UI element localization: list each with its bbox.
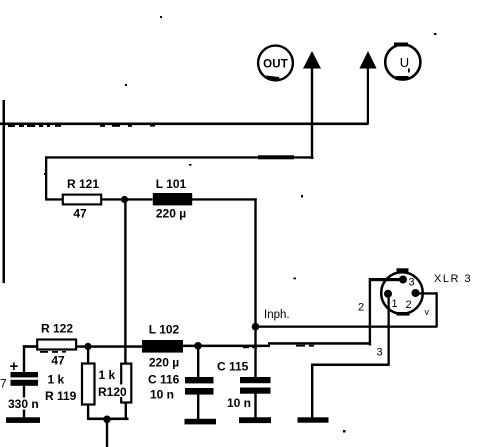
svg-text:47: 47 (51, 354, 65, 368)
svg-text:C 116: C 116 (148, 373, 180, 387)
arrow to OUT (303, 51, 321, 159)
terminal OUT (258, 46, 293, 81)
svg-text:10 n: 10 n (227, 396, 251, 410)
svg-text:L 101: L 101 (156, 177, 187, 191)
wire L101 right lead (191, 198, 257, 200)
ground (330n cap) (6, 417, 40, 423)
svg-text:1 k: 1 k (99, 368, 116, 382)
svg-text:R 122: R 122 (41, 322, 73, 336)
wire Inph to XLR pin2 loop (256, 326, 438, 328)
terminal U (385, 43, 420, 81)
svg-text:R 119: R 119 (45, 389, 77, 403)
node bottom (103, 416, 111, 424)
svg-text:L 102: L 102 (149, 323, 180, 337)
svg-text:R 121: R 121 (67, 177, 99, 191)
resistor R120 (97, 364, 132, 403)
svg-text:XLR 3: XLR 3 (434, 273, 472, 285)
svg-text:v: v (425, 307, 430, 317)
capacitor C117 330n (left, electrolytic) (0, 358, 40, 418)
wire pin1 horizontal (311, 364, 390, 367)
svg-text:7: 7 (0, 377, 7, 391)
wire pin2 loop vertical (436, 292, 438, 327)
resistor R122 (37, 322, 76, 368)
svg-text:10 n: 10 n (150, 388, 174, 402)
svg-text:U: U (400, 55, 409, 70)
connector XLR 3 (381, 268, 472, 315)
wire R121 left lead (45, 198, 62, 200)
wire node to L101 (125, 198, 153, 200)
svg-text:220 µ: 220 µ (156, 207, 186, 221)
inductor L102 (142, 323, 183, 370)
ground (C115) (239, 417, 271, 423)
wire R120 bottom lead (125, 403, 127, 420)
svg-text:330 n: 330 n (8, 397, 39, 411)
svg-text:1: 1 (392, 298, 398, 310)
node Inph (252, 323, 260, 331)
svg-text:OUT: OUT (263, 59, 288, 71)
wire bottom connector R119-R120 (87, 418, 129, 421)
wire XLR pin1 vertical (388, 294, 390, 366)
svg-text:3: 3 (409, 277, 415, 289)
svg-text:3: 3 (377, 347, 383, 359)
capacitor C115 (217, 327, 271, 418)
svg-text:220 µ: 220 µ (149, 356, 179, 370)
ground (C116) (185, 419, 217, 425)
node R122/R119 (84, 343, 91, 350)
capacitor C116 (148, 373, 214, 420)
svg-text:47: 47 (73, 207, 87, 221)
node junction R121/L101/R120 (121, 196, 128, 203)
wire top horizontal (0, 123, 369, 126)
svg-text:R120: R120 (98, 385, 127, 399)
wire R119 bottom lead (87, 404, 89, 420)
wire left vertical (3, 100, 6, 283)
svg-text:2: 2 (406, 299, 412, 311)
node L102/C116 (194, 342, 202, 350)
wire R122 left lead + corner (23, 345, 36, 347)
resistor R119 (45, 364, 95, 405)
wire pin1 ground vertical (311, 364, 313, 419)
svg-text:2: 2 (358, 302, 364, 314)
svg-text:Inph.: Inph. (264, 309, 290, 321)
arrow to U (359, 51, 376, 124)
svg-text:1 k: 1 k (48, 373, 65, 387)
wire left corner down to R121 (45, 156, 47, 199)
wire R121 right lead (102, 198, 126, 200)
wire pin2 lead (416, 292, 437, 294)
ground (XLR pin1) (298, 417, 329, 422)
wire XLR pin3 lead (369, 278, 403, 281)
wire junction down to R120 (crosses main line) (124, 200, 126, 364)
wire second horizontal (45, 156, 314, 158)
wire to bottom edge (106, 419, 108, 447)
wire node down to R119 (87, 346, 89, 364)
wire down from L101 to Inph node (254, 198, 256, 328)
wire main horizontal line (23, 345, 153, 348)
svg-text:C 115: C 115 (217, 360, 249, 374)
inductor L101 (153, 177, 192, 221)
wire node down to C116 (197, 346, 199, 378)
wire pin3 vertical down to main line (369, 278, 371, 346)
resistor R121 (63, 177, 101, 221)
